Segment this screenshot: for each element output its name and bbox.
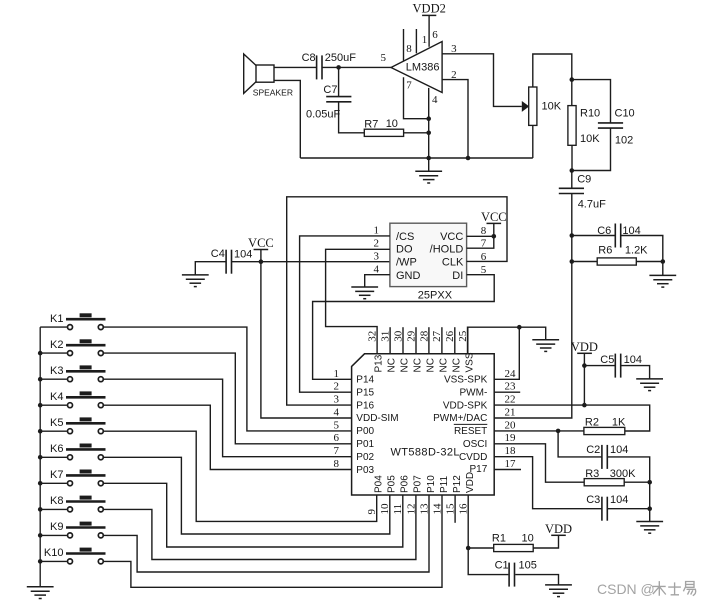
resistor R1: [494, 544, 534, 551]
svg-text:13: 13: [418, 503, 430, 515]
svg-text:CLK: CLK: [442, 257, 464, 269]
capacitor C9: [559, 188, 584, 193]
svg-text:104: 104: [234, 248, 252, 260]
svg-text:31: 31: [379, 331, 391, 342]
pin 28 stub: [428, 327, 430, 354]
pushbutton K9: [50, 521, 105, 538]
svg-text:21: 21: [505, 406, 516, 418]
svg-text:CVDD: CVDD: [459, 452, 487, 463]
capacitor C2: [602, 445, 607, 469]
svg-text:102: 102: [615, 135, 633, 147]
svg-text:17: 17: [505, 458, 517, 470]
svg-text:4: 4: [334, 406, 340, 418]
wire bus to K1: [40, 326, 67, 328]
svg-text:14: 14: [431, 503, 443, 515]
svg-text:2: 2: [334, 381, 340, 393]
pin 15 P12 stub: [454, 495, 456, 523]
svg-text:OSCI: OSCI: [463, 439, 487, 450]
pin 1 stub: [415, 29, 417, 53]
svg-text:SPEAKER: SPEAKER: [253, 88, 293, 98]
svg-text:C6: C6: [597, 225, 611, 237]
junction VCC rail: [259, 259, 264, 264]
junction R1 tap: [466, 546, 471, 551]
wire pot bottom: [532, 125, 534, 158]
svg-text:K7: K7: [50, 469, 63, 481]
svg-text:29: 29: [405, 330, 417, 342]
svg-text:VCC: VCC: [481, 210, 507, 224]
svg-text:6: 6: [334, 432, 340, 444]
svg-text:8: 8: [406, 43, 412, 55]
svg-text:1K: 1K: [612, 417, 626, 429]
svg-text:PWM+/DAC: PWM+/DAC: [433, 413, 487, 424]
wire R7 to pin 4 net: [404, 132, 429, 134]
wire K8 to P07 pin 12: [104, 495, 416, 560]
pin 27 stub: [441, 327, 443, 354]
power flag VDD2: [413, 2, 446, 16]
wire DO to P13 pin 32: [326, 249, 390, 353]
wire GND pin: [365, 275, 390, 287]
wire bus to K3: [40, 378, 67, 380]
svg-text:300K: 300K: [610, 468, 636, 480]
svg-text:26: 26: [444, 330, 456, 342]
svg-text:/CS: /CS: [396, 231, 414, 243]
wire C3 right: [607, 508, 649, 510]
wire CVDD pin 18 to C3: [494, 457, 602, 509]
wire to R1: [468, 547, 494, 549]
ground C4: [182, 275, 209, 287]
svg-text:NC: NC: [426, 358, 437, 372]
junction bus K9: [38, 533, 43, 538]
svg-text:NC: NC: [451, 358, 462, 372]
ground key bus: [27, 587, 54, 599]
svg-text:VCC: VCC: [440, 231, 463, 243]
svg-text:K8: K8: [50, 495, 63, 507]
wire K4 to P03 pin 8: [104, 405, 352, 469]
svg-text:4: 4: [432, 94, 438, 106]
svg-text:C2: C2: [586, 444, 600, 456]
svg-text:1: 1: [422, 34, 428, 46]
svg-text:VDD: VDD: [465, 472, 476, 493]
wire VDD2 to pin 6: [428, 15, 430, 46]
wire bus to K8: [40, 508, 67, 510]
wire RESET pin 20 to R2: [494, 430, 584, 432]
svg-text:R3: R3: [585, 468, 599, 480]
svg-text:K1: K1: [50, 313, 63, 325]
key ground bus: [39, 327, 41, 587]
wire K1 to P00 pin 5: [104, 327, 352, 431]
svg-text:K10: K10: [44, 547, 64, 559]
junction node C9 top: [570, 168, 575, 173]
resistor R10: [568, 106, 576, 146]
svg-text:K6: K6: [50, 443, 63, 455]
capacitor C5: [615, 354, 620, 378]
junction R6/C6 ground node: [661, 259, 666, 264]
svg-text:VCC: VCC: [248, 236, 274, 250]
svg-text:104: 104: [610, 444, 628, 456]
flash memory U2 25PXX: [390, 223, 467, 301]
junction bus K3: [38, 377, 43, 382]
pushbutton K8: [50, 495, 105, 512]
svg-text:28: 28: [418, 330, 430, 342]
wire CLK to P16 pin 3: [287, 197, 507, 405]
svg-text:VSS: VSS: [464, 352, 475, 372]
wire pot top: [533, 54, 572, 87]
svg-text:WT588D-32L: WT588D-32L: [391, 447, 460, 459]
svg-text:R6: R6: [598, 245, 612, 257]
wire K7 to P06 pin 11: [104, 483, 403, 547]
wire VDD-SPK pin 22 to R2: [494, 405, 650, 431]
svg-text:3: 3: [334, 394, 340, 406]
power flag VCC: [248, 236, 274, 250]
resistor R6: [597, 258, 636, 265]
pushbutton K2: [50, 339, 105, 356]
svg-text:5: 5: [334, 419, 340, 431]
svg-text:VDD-SPK: VDD-SPK: [443, 400, 488, 411]
svg-text:VDD: VDD: [545, 522, 572, 536]
pushbutton K4: [50, 391, 105, 408]
wire K10 to P11 pin 14: [104, 495, 442, 587]
wire pin 2 down: [442, 80, 468, 158]
wire bus to K7: [40, 482, 67, 484]
wire C8 to pin 5: [322, 66, 391, 68]
svg-text:4: 4: [374, 264, 380, 276]
voice chip U1 WT588D-32L: [352, 354, 495, 495]
svg-text:P01: P01: [356, 439, 374, 450]
wire VDD stem: [583, 353, 585, 405]
svg-text:P04: P04: [374, 475, 385, 493]
svg-text:0.05uF: 0.05uF: [306, 108, 341, 120]
svg-text:104: 104: [610, 494, 628, 506]
wire R1 to VDD: [533, 535, 558, 548]
capacitor C3: [602, 497, 607, 521]
resistor R2: [584, 427, 625, 434]
capacitor C8: [317, 55, 322, 79]
svg-text:C1: C1: [495, 560, 509, 572]
wire pin 7 to pin 4: [404, 77, 429, 118]
svg-text:10K: 10K: [542, 101, 562, 113]
junction: [466, 156, 471, 161]
wire amp ground rail: [300, 157, 533, 159]
wire to R10: [571, 80, 573, 106]
junction VSS node: [517, 325, 522, 330]
svg-text:5: 5: [381, 52, 387, 64]
wire bus to K6: [40, 456, 67, 458]
svg-text:11: 11: [392, 504, 404, 515]
svg-text:32: 32: [367, 331, 379, 342]
pushbutton K7: [50, 469, 105, 486]
svg-text:PWM-: PWM-: [460, 388, 488, 399]
svg-text:250uF: 250uF: [325, 52, 356, 64]
wire to amp ground: [428, 158, 430, 171]
svg-text:6: 6: [432, 29, 438, 41]
wire to C2: [558, 431, 602, 457]
svg-text:27: 27: [431, 330, 443, 342]
svg-text:10: 10: [386, 118, 398, 130]
svg-text:LM386: LM386: [406, 62, 440, 74]
svg-text:P10: P10: [426, 475, 437, 493]
svg-text:P16: P16: [356, 400, 374, 411]
svg-text:10K: 10K: [580, 133, 600, 145]
junction C7 tap: [336, 65, 341, 70]
wire C4 to ground: [195, 262, 226, 275]
wire VDD pin 16 down to C1: [468, 495, 508, 575]
junction bus K4: [38, 403, 43, 408]
junction bus K10: [38, 559, 43, 564]
pin 25 stub: [467, 327, 469, 354]
wire K9 to P10 pin 13: [104, 495, 429, 572]
svg-text:C5: C5: [600, 354, 614, 366]
svg-text:P14: P14: [356, 375, 374, 386]
svg-text:R10: R10: [580, 108, 600, 120]
svg-text:P07: P07: [413, 475, 424, 493]
capacitor C4: [226, 250, 231, 274]
wire K5 to P04 pin 9: [104, 431, 377, 521]
pin 31 stub: [389, 327, 391, 354]
svg-text:RESET: RESET: [454, 426, 487, 437]
svg-text:3: 3: [374, 251, 380, 263]
wire to R6: [572, 261, 597, 263]
svg-text:GND: GND: [396, 270, 421, 282]
svg-text:DI: DI: [452, 270, 463, 282]
wire R10 bottom: [571, 145, 573, 170]
wire VSS pin 25 to ground: [468, 327, 546, 354]
wire K2 to P01 pin 6: [104, 353, 352, 444]
ground VSS: [532, 340, 559, 352]
wire C7 to R7: [339, 102, 365, 133]
svg-text:P13: P13: [374, 354, 385, 372]
wire VCC rail to /WP: [232, 261, 390, 263]
svg-text:R7: R7: [364, 118, 378, 130]
wire K3 to P02 pin 7: [104, 379, 352, 457]
ground oscillator net: [636, 522, 663, 534]
ground amp: [415, 171, 442, 183]
watermark CSDN: [597, 581, 696, 597]
wire DI to P14 pin 1: [313, 275, 495, 380]
svg-text:K3: K3: [50, 365, 63, 377]
potentiometer 10K body: [529, 87, 537, 125]
wire bus to K2: [40, 352, 67, 354]
svg-text:C8: C8: [302, 52, 316, 64]
wire pin 4 down: [428, 88, 430, 158]
wire OSCI pin 19 to R3: [494, 444, 584, 482]
svg-text:1: 1: [374, 224, 380, 236]
ground R6/C6: [649, 275, 676, 287]
wire K6 to P05 pin 10: [104, 457, 390, 534]
svg-text:C4: C4: [211, 248, 225, 260]
ground 25PXX: [351, 287, 378, 299]
pin 26 stub: [454, 327, 456, 354]
pushbutton K10: [44, 547, 106, 564]
wire bus to K10: [40, 560, 67, 562]
capacitor C1: [509, 563, 514, 587]
power flag VCC 25PXX: [481, 210, 507, 224]
svg-text:K4: K4: [50, 391, 63, 403]
wire R3 right: [624, 481, 650, 483]
capacitor C7: [326, 97, 351, 102]
svg-text:10: 10: [379, 503, 391, 515]
svg-text:/WP: /WP: [396, 257, 417, 269]
pin 29 stub: [415, 327, 417, 354]
power flag VDD: [571, 340, 598, 354]
wire to C5: [584, 365, 615, 367]
svg-text:P02: P02: [356, 452, 374, 463]
wire to C9: [571, 171, 573, 189]
svg-text:R2: R2: [585, 417, 599, 429]
wire VCC stem: [260, 250, 262, 262]
svg-text:104: 104: [624, 354, 642, 366]
pushbutton K6: [50, 443, 105, 460]
svg-text:23: 23: [505, 381, 517, 393]
wire C1 to ground: [515, 575, 558, 585]
svg-text:7: 7: [406, 80, 412, 92]
svg-text:12: 12: [405, 504, 417, 515]
svg-text:25PXX: 25PXX: [418, 289, 453, 301]
junction C2 tap: [556, 429, 561, 434]
svg-text:20: 20: [505, 419, 517, 431]
pin 30 stub: [402, 327, 404, 354]
svg-text:19: 19: [505, 432, 517, 444]
svg-text:VSS-SPK: VSS-SPK: [444, 375, 488, 386]
svg-text:K5: K5: [50, 417, 63, 429]
wire VSS-SPK pin 24 up: [494, 327, 519, 379]
junction: [426, 116, 431, 121]
svg-text:/HOLD: /HOLD: [430, 244, 464, 256]
wire /HOLD tie to VCC: [467, 223, 494, 248]
svg-text:NC: NC: [413, 358, 424, 372]
svg-text:VDD-SIM: VDD-SIM: [356, 413, 398, 424]
junction: [426, 156, 431, 161]
junction C5 tap: [582, 363, 587, 368]
junction R6 tap: [570, 259, 575, 264]
pin 8 stub: [403, 29, 405, 61]
svg-text:VDD2: VDD2: [413, 2, 446, 16]
op-amp LM386: [391, 42, 442, 93]
svg-text:1.2K: 1.2K: [625, 245, 648, 257]
svg-text:K2: K2: [50, 339, 63, 351]
capacitor C6: [615, 224, 620, 248]
svg-text:P00: P00: [356, 426, 374, 437]
pin 23 PWM- stub: [494, 391, 520, 393]
svg-text:8: 8: [481, 225, 487, 237]
junction C3/ground rail: [647, 506, 652, 511]
wire bus to K5: [40, 430, 67, 432]
svg-text:R1: R1: [492, 533, 506, 545]
ground C1: [545, 585, 572, 597]
svg-text:P05: P05: [387, 475, 398, 493]
speaker: [244, 54, 293, 98]
wire C2 to ground rail: [607, 457, 649, 522]
junction bus K5: [38, 429, 43, 434]
svg-text:18: 18: [505, 445, 517, 457]
wire bus to K4: [40, 404, 67, 406]
svg-text:8: 8: [334, 458, 340, 470]
svg-text:10: 10: [522, 533, 534, 545]
resistor R3: [584, 479, 624, 486]
wire C10 bottom: [572, 128, 611, 170]
wire to C10: [572, 80, 611, 123]
svg-text:9: 9: [366, 509, 378, 515]
svg-text:4.7uF: 4.7uF: [578, 199, 606, 211]
wire to C7: [338, 67, 340, 96]
svg-text:22: 22: [505, 394, 516, 406]
wire C9 to PWM+/DAC pin 21: [494, 194, 572, 419]
capacitor C10: [598, 123, 623, 128]
wire C5 to ground: [621, 366, 650, 379]
pin 17 P17 stub: [494, 469, 521, 471]
svg-text:P03: P03: [356, 465, 374, 476]
wire bus to K9: [40, 534, 67, 536]
svg-text:2: 2: [374, 237, 380, 249]
junction bus K8: [38, 507, 43, 512]
svg-text:C10: C10: [615, 108, 635, 120]
wire VCC to VDD-SIM pin 4: [261, 262, 352, 418]
wire speaker to C8: [274, 66, 317, 68]
wire C6 to ground node: [621, 236, 663, 262]
svg-text:24: 24: [505, 368, 517, 380]
wire R6 right: [636, 261, 663, 263]
potentiometer wiper arrow: [522, 101, 529, 112]
svg-text:NC: NC: [387, 358, 398, 372]
svg-text:1: 1: [334, 368, 340, 380]
svg-text:P11: P11: [439, 476, 450, 493]
pushbutton K3: [50, 365, 105, 382]
svg-text:CSDN @: CSDN @: [597, 581, 655, 597]
svg-text:K9: K9: [50, 521, 63, 533]
wire to ground: [662, 262, 664, 276]
svg-text:30: 30: [392, 330, 404, 342]
RESET overline: [454, 423, 488, 425]
wire pin 3 to pot wiper: [442, 54, 522, 107]
power flag VDD at R1: [545, 522, 572, 536]
wire /CS to P15 pin 2: [300, 236, 390, 392]
svg-text:DO: DO: [396, 244, 413, 256]
junction VCC/HOLD: [492, 234, 497, 239]
wire VCC pin 8: [467, 235, 494, 237]
svg-text:P06: P06: [400, 475, 411, 493]
svg-text:P15: P15: [356, 388, 374, 399]
junction bus K7: [38, 481, 43, 486]
resistor R7: [364, 129, 403, 136]
svg-text:105: 105: [519, 560, 537, 572]
svg-text:7: 7: [334, 445, 340, 457]
wire speaker return: [274, 80, 300, 158]
junction R3/ground rail: [647, 480, 652, 485]
svg-text:VDD: VDD: [571, 340, 598, 354]
junction: [426, 131, 431, 136]
svg-text:NC: NC: [400, 358, 411, 372]
svg-text:C7: C7: [323, 84, 337, 96]
junction VDD/VDD-SPK: [582, 403, 587, 408]
svg-text:NC: NC: [439, 358, 450, 372]
junction C6 tap: [570, 233, 575, 238]
svg-text:C9: C9: [577, 174, 591, 186]
svg-text:C3: C3: [586, 494, 600, 506]
pushbutton K1: [50, 313, 105, 330]
junction bus K2: [38, 351, 43, 356]
junction bus K6: [38, 455, 43, 460]
wire to C6: [572, 235, 616, 237]
pushbutton K5: [50, 417, 105, 434]
ground C5: [636, 379, 663, 391]
junction node pot/R10/C10: [570, 77, 575, 82]
svg-text:P12: P12: [452, 475, 463, 493]
